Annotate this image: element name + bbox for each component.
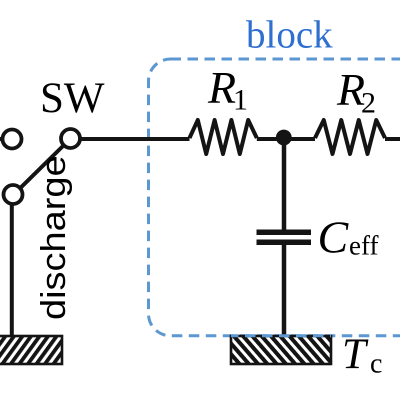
svg-text:T: T [342,331,369,378]
svg-text:c: c [370,349,382,380]
switch SW blade [21,146,64,188]
svg-text:eff: eff [349,231,378,261]
block boundary (dashed) [149,59,400,336]
switch SW throw terminal (discharge) [4,185,23,204]
wire (input to charge throw) [0,137,3,141]
resistor R1 [190,120,257,154]
wire (node to capacitor) [282,139,287,230]
ground (discharge) [0,336,62,364]
svg-text:R: R [207,62,236,113]
wire (discharge throw to ground) [10,203,14,337]
switch SW throw terminal (charge) [3,130,22,149]
resistor R2 [315,120,385,154]
svg-text:2: 2 [361,87,376,120]
wire (R2 to right edge) [385,137,400,141]
wire (R1 to R2) [257,137,315,141]
svg-text:discharge: discharge [34,155,73,320]
capacitor Ceff [257,230,312,236]
svg-text:C: C [318,212,350,263]
switch SW pole terminal [61,129,80,148]
svg-text:block: block [246,14,333,57]
wire (pole to R1) [79,137,190,141]
svg-text:SW: SW [40,75,105,122]
ground Tc [231,336,331,364]
node junction [276,130,292,146]
svg-text:1: 1 [233,84,248,117]
wire (capacitor to ground Tc) [282,245,287,337]
block boundary bottom edge (over ground Tc) [231,334,331,337]
